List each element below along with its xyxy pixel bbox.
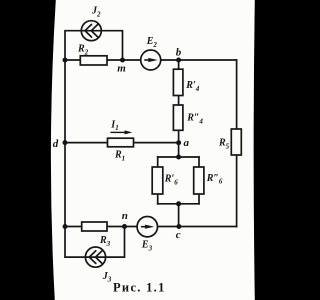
- node m junction dot: [120, 58, 125, 63]
- node junction dot (top-left corner): [63, 58, 68, 63]
- wire: parallel right leg: [198, 157, 200, 204]
- wire: group to node c: [178, 204, 180, 227]
- resistor R5: [231, 129, 241, 155]
- wire through J3 circle: [85, 256, 106, 258]
- current source J3: [85, 247, 105, 267]
- J3 double chevron arrow: [89, 251, 102, 264]
- white page area: [51, 0, 255, 300]
- wire: bottom bus: [65, 226, 237, 228]
- svg-text:d: d: [53, 138, 59, 150]
- bottom-left corner junction dot: [63, 224, 68, 229]
- J2 double chevron arrow: [85, 24, 98, 37]
- resistor R3: [82, 222, 107, 231]
- wire: b to a column: [178, 60, 180, 143]
- emf source E3: [137, 217, 157, 237]
- svg-text:c: c: [176, 229, 181, 241]
- wire: left rail d-column: [64, 60, 66, 227]
- wire: d to a branch: [65, 142, 179, 144]
- node d junction dot: [63, 140, 68, 145]
- svg-text:Рис. 1.1: Рис. 1.1: [113, 280, 166, 294]
- emf source E2: [141, 50, 161, 70]
- wire through J2 circle: [81, 30, 102, 32]
- svg-text:a: a: [184, 137, 190, 149]
- svg-text:n: n: [122, 210, 128, 222]
- wire: top bus: [65, 59, 237, 61]
- node n junction dot: [122, 224, 127, 229]
- wire: parallel group bottom bar: [158, 203, 199, 205]
- resistor R''4: [173, 105, 183, 130]
- wire: parallel left leg: [157, 157, 159, 204]
- resistor R1: [108, 138, 134, 147]
- E2 arrow: [144, 58, 157, 62]
- parallel group top junction dot: [176, 155, 181, 160]
- resistor R''6: [194, 167, 204, 194]
- wire: J2 loop: [65, 31, 123, 60]
- wire: a to parallel group: [178, 143, 180, 157]
- resistor R'4: [173, 69, 183, 95]
- node a junction dot: [176, 140, 181, 145]
- wire: right rail R5 branch: [236, 60, 238, 227]
- svg-text:b: b: [176, 46, 182, 58]
- E3 arrow: [141, 225, 154, 229]
- resistor R2: [80, 56, 107, 65]
- node b junction dot: [176, 58, 181, 63]
- current I1 arrow: [111, 130, 133, 134]
- current source J2: [81, 21, 101, 41]
- resistor R'6: [152, 167, 163, 194]
- wire: parallel group top bar: [158, 156, 199, 158]
- node c junction dot: [176, 224, 181, 229]
- wire: J3 loop: [65, 227, 125, 258]
- parallel group bottom junction dot: [176, 201, 181, 206]
- svg-text:m: m: [117, 63, 126, 75]
